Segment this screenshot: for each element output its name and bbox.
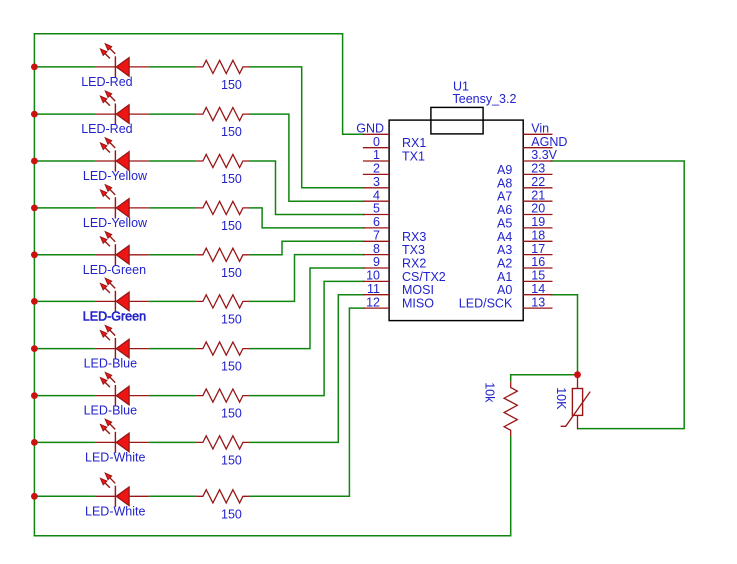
pin 13 (right) lead <box>523 307 552 309</box>
thermistor RT1 body <box>572 389 582 416</box>
resistor R4 150 <box>196 201 249 214</box>
node: bus junction dot row 10 <box>31 493 38 500</box>
LED D5 LED-Green <box>96 244 149 265</box>
svg-text:Teensy_3.2: Teensy_3.2 <box>453 92 517 106</box>
node: bus junction dot row 4 <box>31 205 38 212</box>
svg-text:18: 18 <box>531 229 545 243</box>
svg-text:12: 12 <box>366 295 380 309</box>
pin 18 (right) lead <box>523 240 552 242</box>
wire: resistor R1 to IC pin 3 <box>249 67 364 188</box>
svg-text:MISO: MISO <box>402 297 434 311</box>
wire: LED9 cathode to resistor R9 <box>149 441 197 443</box>
svg-text:10k: 10k <box>483 382 497 403</box>
wire: resistor R6 to IC pin 8 <box>249 255 364 302</box>
svg-text:7: 7 <box>373 229 380 243</box>
pin 9 (left) lead <box>363 267 389 269</box>
pin 17 (right) lead <box>523 254 552 256</box>
node: bus junction dot row 3 <box>31 158 38 165</box>
svg-text:LED-Blue: LED-Blue <box>84 357 138 371</box>
svg-text:A0: A0 <box>497 283 512 297</box>
wire: bus to LED8 anode <box>34 395 95 397</box>
svg-text:23: 23 <box>531 162 545 176</box>
svg-text:5: 5 <box>373 202 380 216</box>
pin 6 (left) lead <box>363 227 389 229</box>
resistor R5 150 <box>196 248 249 261</box>
svg-text:LED-Green: LED-Green <box>83 309 146 323</box>
pin 16 (right) lead <box>523 267 552 269</box>
pin 2 (left) lead <box>363 173 389 175</box>
node: bus junction dot row 9 <box>31 439 38 446</box>
pin 20 (right) lead <box>523 214 552 216</box>
svg-text:150: 150 <box>221 313 242 327</box>
node: bus junction dot row 8 <box>31 392 38 399</box>
pin 3.3V (right) lead <box>523 160 552 162</box>
LED D1 emission arrows <box>104 53 110 59</box>
svg-text:150: 150 <box>221 454 242 468</box>
thermistor RT1 diagonal <box>561 392 591 427</box>
resistor R2 150 <box>196 108 249 121</box>
svg-text:4: 4 <box>373 188 380 202</box>
svg-text:9: 9 <box>373 255 380 269</box>
LED D4 emission arrows <box>104 194 110 200</box>
svg-text:TX1: TX1 <box>402 150 425 164</box>
node: bus junction dot row 2 <box>31 111 38 118</box>
pin Vin (right) lead <box>523 133 552 135</box>
wire: 3.3V net (pin 3.3V right, down, to thermistor bottom) <box>551 161 685 429</box>
svg-text:A5: A5 <box>497 216 512 230</box>
pin 19 (right) lead <box>523 227 552 229</box>
pin 5 (left) lead <box>363 214 389 216</box>
svg-text:3: 3 <box>373 175 380 189</box>
pin 21 (right) lead <box>523 200 552 202</box>
LED D9 LED-White <box>96 432 149 453</box>
wire: resistor R8 to IC pin 10 <box>249 281 364 395</box>
svg-text:150: 150 <box>221 219 242 233</box>
wire: bus to LED1 anode <box>34 66 95 68</box>
svg-text:RX1: RX1 <box>402 136 426 150</box>
resistor R7 150 <box>196 342 249 355</box>
wire: resistor R4 to IC pin 6 <box>249 208 364 228</box>
resistor R1 150 <box>196 60 249 73</box>
pin 11 (left) lead <box>363 294 389 296</box>
wire: bus to LED3 anode <box>34 160 95 162</box>
wire: pin 14 net to junction <box>551 295 578 378</box>
svg-text:LED-Red: LED-Red <box>81 122 132 136</box>
svg-text:GND: GND <box>356 122 384 136</box>
LED D5 emission arrows <box>104 240 110 246</box>
svg-text:11: 11 <box>367 282 380 296</box>
svg-text:20: 20 <box>531 202 545 216</box>
LED D10 emission arrows <box>104 482 110 488</box>
svg-text:1: 1 <box>373 148 380 162</box>
svg-text:RX2: RX2 <box>402 257 426 271</box>
node: bus junction dot row 1 <box>31 64 38 71</box>
wire: resistor R3 to IC pin 5 <box>249 161 364 215</box>
pin 10 (left) lead <box>363 280 389 282</box>
svg-text:AGND: AGND <box>531 135 567 149</box>
node: bus junction dot row 5 <box>31 251 38 258</box>
wire: LED4 cathode to resistor R4 <box>149 207 197 209</box>
svg-text:MOSI: MOSI <box>402 283 434 297</box>
LED D3 emission arrows <box>104 147 110 153</box>
svg-text:A9: A9 <box>497 163 512 177</box>
wire: LED10 cathode to resistor R10 <box>149 495 197 497</box>
svg-text:LED/SCK: LED/SCK <box>459 297 513 311</box>
wire: LED7 cathode to resistor R7 <box>149 348 197 350</box>
svg-text:0: 0 <box>373 135 380 149</box>
svg-text:19: 19 <box>531 215 545 229</box>
pin 3 (left) lead <box>363 187 389 189</box>
LED D10 LED-White <box>96 486 149 507</box>
wire: resistor R2 to IC pin 4 <box>249 114 364 201</box>
pin 7 (left) lead <box>363 240 389 242</box>
pin 15 (right) lead <box>523 280 552 282</box>
svg-text:A3: A3 <box>497 243 512 257</box>
wire: bus to LED2 anode <box>34 113 95 115</box>
resistor R10 150 <box>196 490 249 503</box>
wire: LED5 cathode to resistor R5 <box>149 254 197 256</box>
pin 0 (left) lead <box>363 147 389 149</box>
wire: LED3 cathode to resistor R3 <box>149 160 197 162</box>
wire: junction to 10K resistor top <box>511 375 578 382</box>
svg-text:22: 22 <box>531 175 545 189</box>
LED D2 emission arrows <box>104 100 110 106</box>
svg-text:10: 10 <box>366 269 380 283</box>
svg-text:10K: 10K <box>554 387 568 410</box>
svg-text:150: 150 <box>221 78 242 92</box>
pin 8 (left) lead <box>363 254 389 256</box>
svg-text:CS/TX2: CS/TX2 <box>402 270 446 284</box>
svg-text:A1: A1 <box>497 270 512 284</box>
pin 14 (right) lead <box>523 294 552 296</box>
svg-text:LED-Yellow: LED-Yellow <box>83 216 148 230</box>
pin GND (left) lead <box>363 133 389 135</box>
svg-text:15: 15 <box>531 269 545 283</box>
IC U1 top notch <box>431 107 483 133</box>
svg-text:LED-Red: LED-Red <box>81 75 132 89</box>
resistor R6 150 <box>196 295 249 308</box>
LED D8 LED-Blue <box>96 385 149 406</box>
svg-text:LED-White: LED-White <box>85 450 145 464</box>
svg-text:150: 150 <box>221 266 242 280</box>
pin 4 (left) lead <box>363 200 389 202</box>
wire: resistor R7 to IC pin 9 <box>249 268 364 349</box>
wire: bus to LED6 anode <box>34 300 95 302</box>
wire: bus to LED4 anode <box>34 207 95 209</box>
svg-text:21: 21 <box>531 188 545 202</box>
wire: LED1 cathode to resistor R1 <box>149 66 197 68</box>
pin 22 (right) lead <box>523 187 552 189</box>
node: junction dot pin14/thermistor/10K <box>574 371 581 378</box>
resistor R8 150 <box>196 389 249 402</box>
wire: LED2 cathode to resistor R2 <box>149 113 197 115</box>
wire: bus to LED9 anode <box>34 441 95 443</box>
resistor R11 10k (vertical) <box>504 382 517 437</box>
svg-text:A4: A4 <box>497 230 512 244</box>
pin AGND (right) lead <box>523 147 552 149</box>
pin 23 (right) lead <box>523 173 552 175</box>
LED D7 LED-Blue <box>96 338 149 359</box>
LED D6 emission arrows <box>104 287 110 293</box>
svg-text:3.3V: 3.3V <box>531 148 557 162</box>
svg-text:A7: A7 <box>497 190 512 204</box>
svg-text:150: 150 <box>221 507 242 521</box>
svg-text:150: 150 <box>221 407 242 421</box>
node: bus junction dot row 6 <box>31 298 38 305</box>
svg-text:LED-Yellow: LED-Yellow <box>83 169 148 183</box>
wire: bus to LED10 anode <box>34 495 95 497</box>
LED D2 LED-Red <box>96 104 149 125</box>
wire: bus to LED5 anode <box>34 254 95 256</box>
svg-text:A8: A8 <box>497 176 512 190</box>
svg-text:17: 17 <box>531 242 545 256</box>
pin 12 (left) lead <box>363 307 389 309</box>
svg-text:8: 8 <box>373 242 380 256</box>
svg-text:150: 150 <box>221 360 242 374</box>
node: bus junction dot row 7 <box>31 345 38 352</box>
wire: resistor R10 to IC pin 12 <box>249 308 364 496</box>
svg-text:14: 14 <box>531 282 545 296</box>
svg-text:Vin: Vin <box>531 122 549 136</box>
svg-text:6: 6 <box>373 215 380 229</box>
svg-text:A2: A2 <box>497 257 512 271</box>
svg-text:RX3: RX3 <box>402 230 426 244</box>
svg-text:13: 13 <box>531 295 545 309</box>
LED D6 LED-Green <box>96 291 149 312</box>
svg-text:150: 150 <box>221 172 242 186</box>
wire: resistor R5 to IC pin 7 <box>249 241 364 255</box>
svg-text:LED-Blue: LED-Blue <box>84 404 138 418</box>
svg-text:A6: A6 <box>497 203 512 217</box>
svg-text:LED-Green: LED-Green <box>83 263 146 277</box>
pin 1 (left) lead <box>363 160 389 162</box>
LED D3 LED-Yellow <box>96 150 149 171</box>
wire: LED6 cathode to resistor R6 <box>149 300 197 302</box>
svg-text:2: 2 <box>373 162 380 176</box>
resistor R3 150 <box>196 154 249 167</box>
op: IC U1 Teensy_3.2 body <box>389 120 523 321</box>
svg-text:LED-White: LED-White <box>85 504 145 518</box>
wire: left cathode bus vertical <box>33 33 35 536</box>
wire: GND net top rail <box>34 34 364 135</box>
wire: bottom rail <box>34 436 511 536</box>
LED D8 emission arrows <box>104 381 110 387</box>
thermistor RT1 leads <box>577 378 579 389</box>
wire: bus to LED7 anode <box>34 348 95 350</box>
wire: LED8 cathode to resistor R8 <box>149 395 197 397</box>
LED D9 emission arrows <box>104 428 110 434</box>
wire: resistor R9 to IC pin 11 <box>249 295 364 443</box>
svg-text:16: 16 <box>531 255 545 269</box>
LED D1 LED-Red <box>96 56 149 77</box>
LED D4 LED-Yellow <box>96 197 149 218</box>
LED D7 emission arrows <box>104 334 110 340</box>
svg-text:150: 150 <box>221 125 242 139</box>
resistor R9 150 <box>196 436 249 449</box>
svg-text:TX3: TX3 <box>402 243 425 257</box>
